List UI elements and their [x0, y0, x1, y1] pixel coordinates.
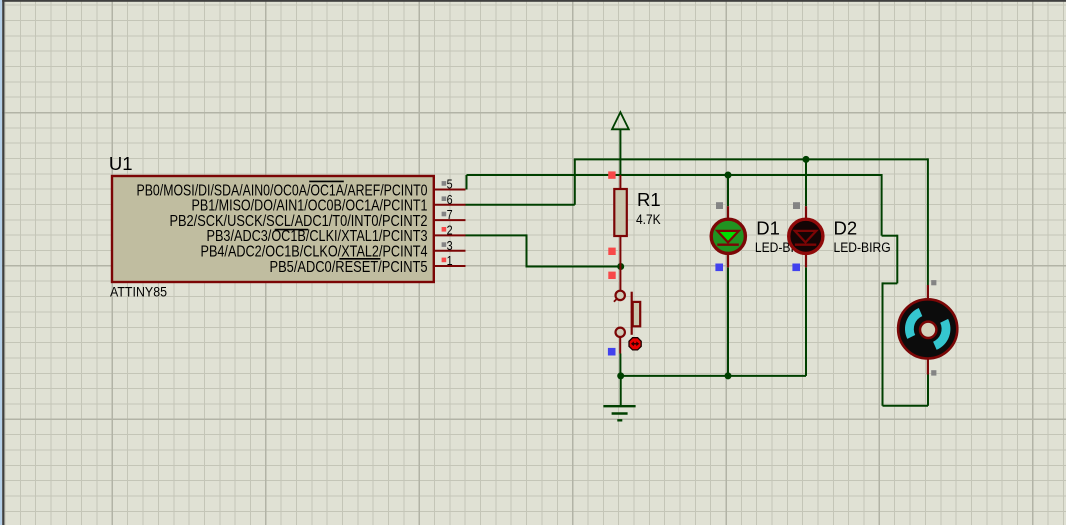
- junction dot rail A / D2: [803, 156, 810, 163]
- svg-text:5: 5: [447, 177, 453, 192]
- svg-text:D2: D2: [834, 218, 858, 239]
- motor top lead: [927, 285, 929, 301]
- wire: D2 cathode drop to bottom rail: [805, 267, 807, 376]
- resistor R1 terminals: [619, 175, 621, 291]
- push button top contact nub: [614, 299, 617, 302]
- blue state square at button: [608, 348, 616, 356]
- svg-text:PB5/ADC0/RESET/PCINT5: PB5/ADC0/RESET/PCINT5: [270, 259, 428, 276]
- motor rotor arc upper-left: [905, 308, 922, 339]
- wire: pin 2 horizontal (net PB3): [466, 234, 527, 236]
- wire: motor bottom pin riser: [927, 375, 929, 406]
- wire: net PB0 jog down right side: [881, 174, 883, 236]
- svg-text:7: 7: [447, 207, 453, 222]
- overline OC1B pin2 row: [275, 229, 309, 231]
- motor hub: [920, 322, 936, 338]
- pin 6 logic state square: [442, 196, 447, 201]
- wire: junction down to ground symbol: [620, 376, 622, 406]
- red wire state square R1 bottom net upper: [608, 248, 615, 255]
- svg-text:6: 6: [447, 192, 453, 207]
- svg-text:D1: D1: [756, 218, 780, 239]
- junction dot rail B / D1: [725, 172, 732, 179]
- LED D1 lead through symbol: [727, 206, 729, 267]
- pin 6 stub of U1: [434, 204, 466, 206]
- wire: pin 6 horizontal (net PB1): [466, 204, 575, 206]
- window chrome left/top edges: [0, 0, 2, 525]
- pin 3 stub of U1: [434, 250, 466, 252]
- wire: button bottom to ground junction: [619, 354, 621, 376]
- wire: net PB0 jog right around label: [882, 235, 898, 237]
- pin 3 logic state square: [442, 242, 447, 247]
- wire: pin 5 riser (net PB0): [466, 175, 468, 190]
- wire: net PB3 horizontal to R1 bottom junction: [526, 266, 621, 268]
- LED D2 cathode bar: [795, 243, 817, 245]
- motor rotor arc lower-right: [933, 319, 950, 350]
- motor body circle: [898, 299, 957, 358]
- power symbol VCC arrow: [612, 112, 629, 129]
- D1 gray state square: [716, 202, 723, 209]
- wire: rail B horizontal (net PB0): [467, 174, 882, 176]
- LED D2 triangle (anode): [795, 231, 817, 243]
- wire: net PB0 vertical down to motor row: [882, 282, 884, 405]
- resistor R1 body: [614, 189, 627, 236]
- wire: D1 anode drop from rail B: [727, 175, 729, 206]
- wire: rail A horizontal (net PB1): [574, 158, 928, 160]
- wire: power rail from VCC arrow down to R1 top node: [619, 129, 621, 175]
- overline OC1A pin5 row: [309, 180, 344, 182]
- pin 2 stub of U1: [434, 234, 466, 236]
- svg-text:LED-BIRG: LED-BIRG: [834, 240, 891, 255]
- wire: net PB3 vertical drop: [526, 234, 528, 266]
- svg-text:3: 3: [447, 238, 453, 253]
- junction dot R1 bottom / PB3: [617, 263, 624, 270]
- pin 2 logic state square: [442, 227, 447, 232]
- LED D1 body circle (lit green): [711, 219, 745, 253]
- push button top terminal circle: [616, 291, 625, 300]
- svg-text:R1: R1: [637, 189, 661, 210]
- push button bottom terminal circle: [616, 328, 625, 337]
- motor top gray pin square: [931, 280, 936, 285]
- svg-text:U1: U1: [109, 153, 133, 174]
- junction dot bottom rail / D1: [725, 372, 732, 379]
- D2 blue state square: [792, 264, 800, 272]
- wire: D1 cathode drop to bottom rail: [727, 267, 729, 376]
- push button actuator bar: [631, 292, 633, 335]
- ground symbol: [603, 406, 635, 420]
- push button bottom lead: [619, 337, 621, 354]
- overline RESET pin1 row: [339, 258, 380, 260]
- LED D2 lead through symbol: [805, 206, 807, 267]
- svg-text:1: 1: [447, 253, 453, 268]
- wire: pin 6 riser (net PB1): [574, 159, 576, 204]
- wire: net PB1 drop to motor top: [927, 158, 929, 285]
- LED D2 body circle (dark/off): [789, 219, 823, 253]
- pin 5 stub of U1: [434, 189, 466, 191]
- red wire state square R1 top net: [608, 171, 615, 178]
- LED D1 cathode bar: [717, 243, 739, 245]
- wire: bottom rail button node to D2 cathode: [621, 375, 806, 377]
- pin 7 logic state square: [442, 212, 447, 217]
- motor bottom gray pin square: [931, 370, 936, 375]
- D1 blue state square: [715, 264, 723, 272]
- wire: net PB0 jog left: [883, 282, 898, 284]
- motor bottom lead: [927, 357, 929, 375]
- wire: net PB0 horizontal to motor bottom: [883, 405, 929, 407]
- push button cap: [633, 302, 641, 326]
- pin 7 stub of U1: [434, 219, 466, 221]
- svg-text:ATTINY85: ATTINY85: [110, 285, 167, 300]
- red wire state square R1 bottom net lower: [608, 272, 615, 279]
- pin 1 stub of U1: [434, 265, 466, 267]
- wire: D2 anode drop from rail A: [805, 159, 807, 206]
- svg-text:2: 2: [447, 223, 453, 238]
- op-amp body: IC U1 ATTINY85: [112, 176, 434, 282]
- LED D1 triangle (anode): [717, 231, 739, 243]
- interactive toggle octagon marker: [629, 338, 641, 350]
- wire: net PB0 vertical mid segment: [896, 235, 898, 284]
- pin 1 logic state square: [442, 258, 447, 263]
- D2 gray state square: [793, 202, 800, 209]
- svg-text:4.7K: 4.7K: [636, 212, 661, 227]
- pin 5 logic state square: [442, 181, 447, 186]
- junction dot bottom rail / ground: [617, 372, 624, 379]
